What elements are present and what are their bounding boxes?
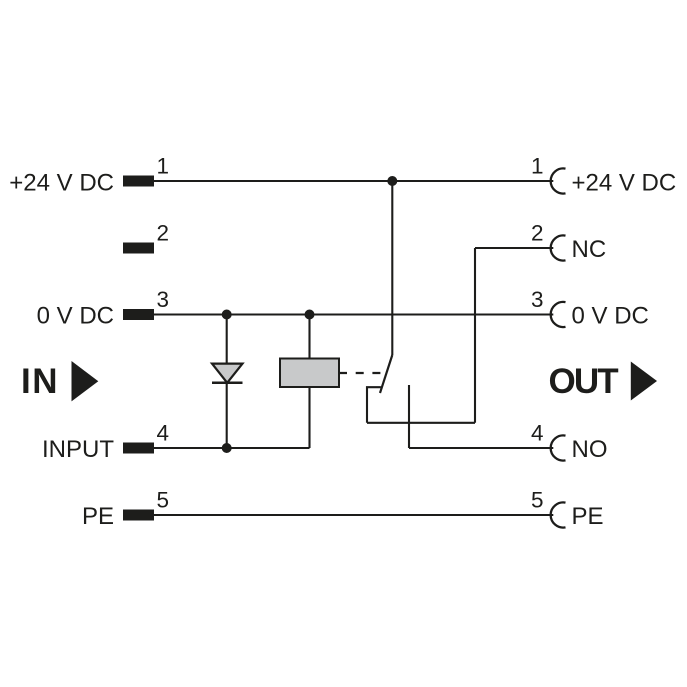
svg-text:4: 4: [531, 421, 544, 446]
junction dot wire1/pole: [387, 176, 397, 186]
diode V1: [212, 364, 243, 383]
wire NO horizontal to pin 4: [409, 447, 553, 449]
wire 0 V DC row 3: [154, 313, 553, 315]
wire NC pin 2 horizontal: [475, 247, 553, 249]
svg-text:1: 1: [157, 154, 170, 179]
svg-text:3: 3: [531, 287, 544, 312]
wire switch pole vertical: [391, 181, 393, 355]
junction dot wire3/relay: [305, 310, 315, 320]
svg-text:5: 5: [531, 488, 544, 513]
svg-text:3: 3: [157, 287, 170, 312]
svg-text:NC: NC: [572, 236, 607, 263]
svg-text:5: 5: [157, 488, 170, 513]
diode cathode bar: [212, 382, 243, 385]
terminal 5: [123, 510, 154, 521]
wire INPUT row 4: [154, 447, 310, 449]
wire PE row 5: [154, 514, 554, 516]
wire diode bottom: [226, 383, 228, 448]
terminal 4: [123, 443, 154, 454]
wire NC vertical: [474, 248, 476, 423]
svg-text:INPUT: INPUT: [42, 436, 114, 463]
svg-text:PE: PE: [82, 503, 114, 530]
svg-text:1: 1: [531, 154, 544, 179]
wire +24 V DC row 1: [154, 180, 553, 182]
terminal 1: [123, 176, 154, 187]
svg-text:PE: PE: [572, 503, 604, 530]
terminal 2: [123, 243, 154, 254]
svg-text:2: 2: [157, 221, 170, 246]
socket pin 1: [551, 168, 566, 193]
arrow OUT: [631, 362, 657, 401]
svg-text:+24 V DC: +24 V DC: [572, 170, 677, 197]
socket pin 5: [551, 502, 566, 527]
svg-text:OUT: OUT: [549, 362, 619, 401]
svg-text:0 V DC: 0 V DC: [37, 303, 114, 330]
wire relay bottom: [308, 387, 310, 448]
svg-text:+24 V DC: +24 V DC: [9, 170, 114, 197]
wire diode top: [226, 315, 228, 383]
junction dot wire3/diode: [222, 310, 232, 320]
junction dot wire4/diode: [222, 443, 232, 453]
svg-text:NO: NO: [572, 436, 608, 463]
arrow IN: [72, 361, 99, 401]
socket pin 2: [551, 235, 566, 260]
svg-text:4: 4: [157, 421, 170, 446]
relay coil K1: [280, 359, 339, 388]
wire relay top: [308, 315, 310, 359]
switch contact arm: [380, 355, 392, 393]
svg-text:IN: IN: [21, 362, 59, 401]
dashed actuation link: [339, 372, 381, 374]
svg-text:2: 2: [531, 221, 544, 246]
wire NC contact L: [367, 387, 381, 423]
wire NO vertical: [408, 385, 410, 448]
socket pin 4: [551, 435, 566, 460]
wire NC lower horizontal: [367, 422, 475, 424]
svg-text:0 V DC: 0 V DC: [572, 303, 649, 330]
terminal 3: [123, 309, 154, 320]
socket pin 3: [551, 302, 566, 327]
